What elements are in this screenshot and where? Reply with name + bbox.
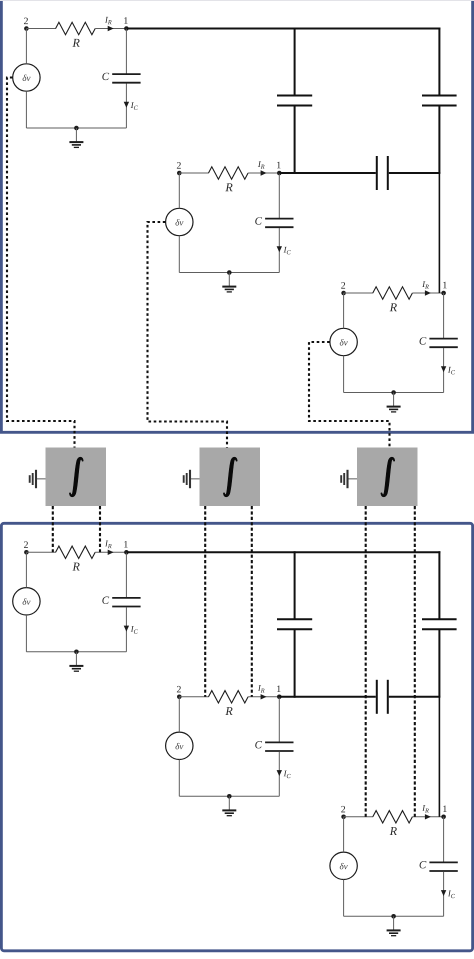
resistor R of oscillator A2 xyxy=(209,167,249,191)
wire: top coupling rail from node1 (upper panel) xyxy=(127,28,441,30)
coupling capacitor C12 (upper panel) xyxy=(277,96,312,106)
resistor R of oscillator B3 xyxy=(373,811,413,835)
wire: right coupling drop upper (lower panel) xyxy=(438,551,440,619)
node 1 of oscillator A3 (label) xyxy=(443,282,446,288)
wire node2 to source top of oscillator A3 xyxy=(343,293,345,328)
dashed sense wire from source A2 to integrator U2 xyxy=(148,222,228,448)
node 2 of oscillator A1 (junction dot) xyxy=(24,26,29,31)
dashed sense wire from source A3 to integrator U3 xyxy=(309,342,390,448)
current arrow I_R of oscillator B3 xyxy=(422,805,431,819)
wire node2 to resistor oscillator B1 xyxy=(26,551,56,553)
wire: top coupling rail from node1 (lower panel) xyxy=(127,551,441,553)
wire node1 down to capacitor of oscillator A2 xyxy=(278,173,280,218)
wire resistor to node1 of oscillator A1 xyxy=(95,28,126,30)
current arrow I_C of oscillator B3 xyxy=(441,890,455,898)
node 1 of oscillator A2 (label) xyxy=(277,162,280,168)
node 2 of oscillator A2 (junction dot) xyxy=(177,171,182,176)
dashed output wire integrator U2 left xyxy=(204,506,206,697)
coupling capacitor C23 (lower panel) xyxy=(377,680,388,714)
wire resistor to node1 of oscillator A2 xyxy=(248,172,279,174)
wire source bottom to bottom rail of oscillator B1 xyxy=(25,615,27,652)
wire node2 to source top of oscillator B1 xyxy=(25,552,27,587)
integrator U1 box xyxy=(46,448,107,507)
dashed output wire integrator U1 left xyxy=(52,506,54,552)
node 1 of oscillator A1 (junction dot) xyxy=(124,26,129,31)
node 2 of oscillator A3 (junction dot) xyxy=(341,291,346,296)
wire: left coupling drop upper (lower panel) xyxy=(294,551,296,619)
node 1 of oscillator B3 (junction dot) xyxy=(441,815,446,820)
current arrow I_C of oscillator A2 xyxy=(277,246,291,254)
resistor R of oscillator A3 xyxy=(373,287,413,311)
wire node2 to resistor oscillator A1 xyxy=(26,28,56,30)
wire capacitor to bottom rail of oscillator B2 xyxy=(278,752,280,797)
capacitor C of oscillator B2 xyxy=(255,741,293,751)
current arrow I_C of oscillator A1 xyxy=(124,102,138,110)
wire resistor to node1 of oscillator A3 xyxy=(412,292,443,294)
wire node1 down to capacitor of oscillator A1 xyxy=(125,29,127,74)
node 2 of oscillator B3 (junction dot) xyxy=(341,815,346,820)
border frame of upper circuit panel xyxy=(0,0,474,432)
dashed output wire integrator U1 right xyxy=(99,506,101,552)
node 1 of oscillator B1 (label) xyxy=(124,541,127,547)
voltage source deltaV of oscillator A2 xyxy=(166,208,193,235)
wire node1 down to capacitor of oscillator A3 xyxy=(443,293,445,338)
voltage source deltaV of oscillator B2 xyxy=(166,732,193,759)
wire node2 to resistor oscillator B2 xyxy=(179,696,209,698)
wire source bottom to bottom rail of oscillator A1 xyxy=(25,91,27,128)
ground of oscillator B3 xyxy=(387,914,401,936)
wire capacitor to bottom rail of oscillator B3 xyxy=(443,872,445,917)
wire node2 to source top of oscillator A1 xyxy=(25,29,27,64)
wire: left coupling drop lower (upper panel) xyxy=(294,106,296,175)
current arrow I_R of oscillator B2 xyxy=(258,685,267,699)
bottom rail wire of oscillator B1 xyxy=(26,651,126,653)
integrator U3 integral symbol xyxy=(381,457,395,497)
border frame of lower circuit panel xyxy=(1,523,472,951)
voltage source deltaV of oscillator A1 xyxy=(13,64,40,91)
wire: mid rail right segment (lower panel) xyxy=(389,696,441,698)
wire node2 to source top of oscillator A2 xyxy=(178,173,180,208)
wire node1 down to capacitor of oscillator B2 xyxy=(278,697,280,742)
node 1 of oscillator B3 (label) xyxy=(443,806,446,812)
current arrow I_C of oscillator B1 xyxy=(124,626,138,634)
dashed output wire integrator U3 right xyxy=(414,506,416,817)
wire: mid rail right segment (upper panel) xyxy=(389,172,441,174)
wire: right coupling drop lower (lower panel) xyxy=(438,629,440,817)
wire source bottom to bottom rail of oscillator B2 xyxy=(178,760,180,797)
wire resistor to node1 of oscillator B1 xyxy=(95,551,126,553)
ground of oscillator A2 xyxy=(222,270,236,292)
bottom rail wire of oscillator B2 xyxy=(179,795,279,797)
wire capacitor to bottom rail of oscillator A1 xyxy=(125,84,127,129)
wire source bottom to bottom rail of oscillator B3 xyxy=(343,880,345,917)
wire source bottom to bottom rail of oscillator A3 xyxy=(343,356,345,393)
node 2 of oscillator A2 (label) xyxy=(177,162,181,168)
integrator U2 box xyxy=(200,448,261,507)
resistor R of oscillator A1 xyxy=(56,22,96,46)
wire: left coupling drop upper (upper panel) xyxy=(294,28,296,96)
voltage source deltaV of oscillator B1 xyxy=(13,588,40,615)
voltage source deltaV of oscillator B3 xyxy=(330,852,357,879)
capacitor C of oscillator A2 xyxy=(255,217,293,227)
node 1 of oscillator A1 (label) xyxy=(124,17,127,23)
capacitor C of oscillator B1 xyxy=(102,597,140,607)
bottom rail wire of oscillator A2 xyxy=(179,272,279,274)
node 1 of oscillator A2 (junction dot) xyxy=(277,171,282,176)
dashed output wire integrator U2 right xyxy=(251,506,253,697)
bottom rail wire of oscillator B3 xyxy=(344,915,444,917)
ground of oscillator A3 xyxy=(387,390,401,412)
ground of oscillator B1 xyxy=(69,650,83,672)
current arrow I_R of oscillator A1 xyxy=(105,17,114,31)
wire node2 to source top of oscillator B2 xyxy=(178,697,180,732)
wire resistor to node1 of oscillator B3 xyxy=(412,816,443,818)
node 1 of oscillator B1 (junction dot) xyxy=(124,550,129,555)
node 2 of oscillator A3 (label) xyxy=(341,282,345,288)
current arrow I_R of oscillator B1 xyxy=(105,541,114,555)
current arrow I_C of oscillator A3 xyxy=(441,366,455,374)
bottom rail wire of oscillator A3 xyxy=(344,392,444,394)
wire: right coupling drop lower (upper panel) xyxy=(438,106,440,294)
wire node2 to resistor oscillator B3 xyxy=(344,816,374,818)
wire capacitor to bottom rail of oscillator B1 xyxy=(125,607,127,652)
ground at input of integrator U2 xyxy=(184,470,200,488)
integrator U2 integral symbol xyxy=(223,457,237,497)
wire capacitor to bottom rail of oscillator A3 xyxy=(443,348,445,393)
capacitor C of oscillator B3 xyxy=(420,861,458,871)
wire node1 down to capacitor of oscillator B1 xyxy=(125,552,127,597)
wire capacitor to bottom rail of oscillator A2 xyxy=(278,228,280,273)
wire: right coupling drop upper (upper panel) xyxy=(438,28,440,96)
node 2 of oscillator B2 (junction dot) xyxy=(177,695,182,700)
node 1 of oscillator B2 (junction dot) xyxy=(277,695,282,700)
node 1 of oscillator A3 (junction dot) xyxy=(441,291,446,296)
resistor R of oscillator B1 xyxy=(56,546,96,570)
wire node2 to resistor oscillator A3 xyxy=(344,292,374,294)
ground at input of integrator U3 xyxy=(341,470,357,488)
node 2 of oscillator A1 (label) xyxy=(24,18,28,24)
capacitor C of oscillator A1 xyxy=(102,73,140,83)
dashed output wire integrator U3 left xyxy=(365,506,367,817)
wire: mid rail from node1 of second cell (upper panel) xyxy=(279,172,376,174)
coupling capacitor C12 (lower panel) xyxy=(277,619,312,629)
node 2 of oscillator B3 (label) xyxy=(341,806,345,812)
resistor R of oscillator B2 xyxy=(209,691,249,715)
wire node2 to resistor oscillator A2 xyxy=(179,172,209,174)
current arrow I_R of oscillator A2 xyxy=(258,161,267,175)
current arrow I_R of oscillator A3 xyxy=(422,281,431,295)
integrator U1 integral symbol xyxy=(69,457,83,497)
current arrow I_C of oscillator B2 xyxy=(277,770,291,778)
bottom rail wire of oscillator A1 xyxy=(26,127,126,129)
wire source bottom to bottom rail of oscillator A2 xyxy=(178,236,180,273)
capacitor C of oscillator A3 xyxy=(420,337,458,347)
wire node1 down to capacitor of oscillator B3 xyxy=(443,817,445,862)
ground of oscillator A1 xyxy=(69,126,83,148)
wire resistor to node1 of oscillator B2 xyxy=(248,696,279,698)
ground at input of integrator U1 xyxy=(30,470,46,488)
wire: left coupling drop lower (lower panel) xyxy=(294,629,296,698)
coupling capacitor C13 (upper panel) xyxy=(422,96,457,106)
node 1 of oscillator B2 (label) xyxy=(277,686,280,692)
integrator U3 box xyxy=(357,448,418,507)
ground of oscillator B2 xyxy=(222,794,236,816)
dashed sense wire from source A1 to integrator U1 xyxy=(7,78,75,448)
wire: mid rail from node1 of second cell (lower panel) xyxy=(279,696,376,698)
voltage source deltaV of oscillator A3 xyxy=(330,328,357,355)
node 2 of oscillator B1 (label) xyxy=(24,541,28,547)
wire node2 to source top of oscillator B3 xyxy=(343,817,345,852)
coupling capacitor C13 (lower panel) xyxy=(422,619,457,629)
coupling capacitor C23 (upper panel) xyxy=(377,156,388,190)
node 2 of oscillator B1 (junction dot) xyxy=(24,550,29,555)
node 2 of oscillator B2 (label) xyxy=(177,686,181,692)
